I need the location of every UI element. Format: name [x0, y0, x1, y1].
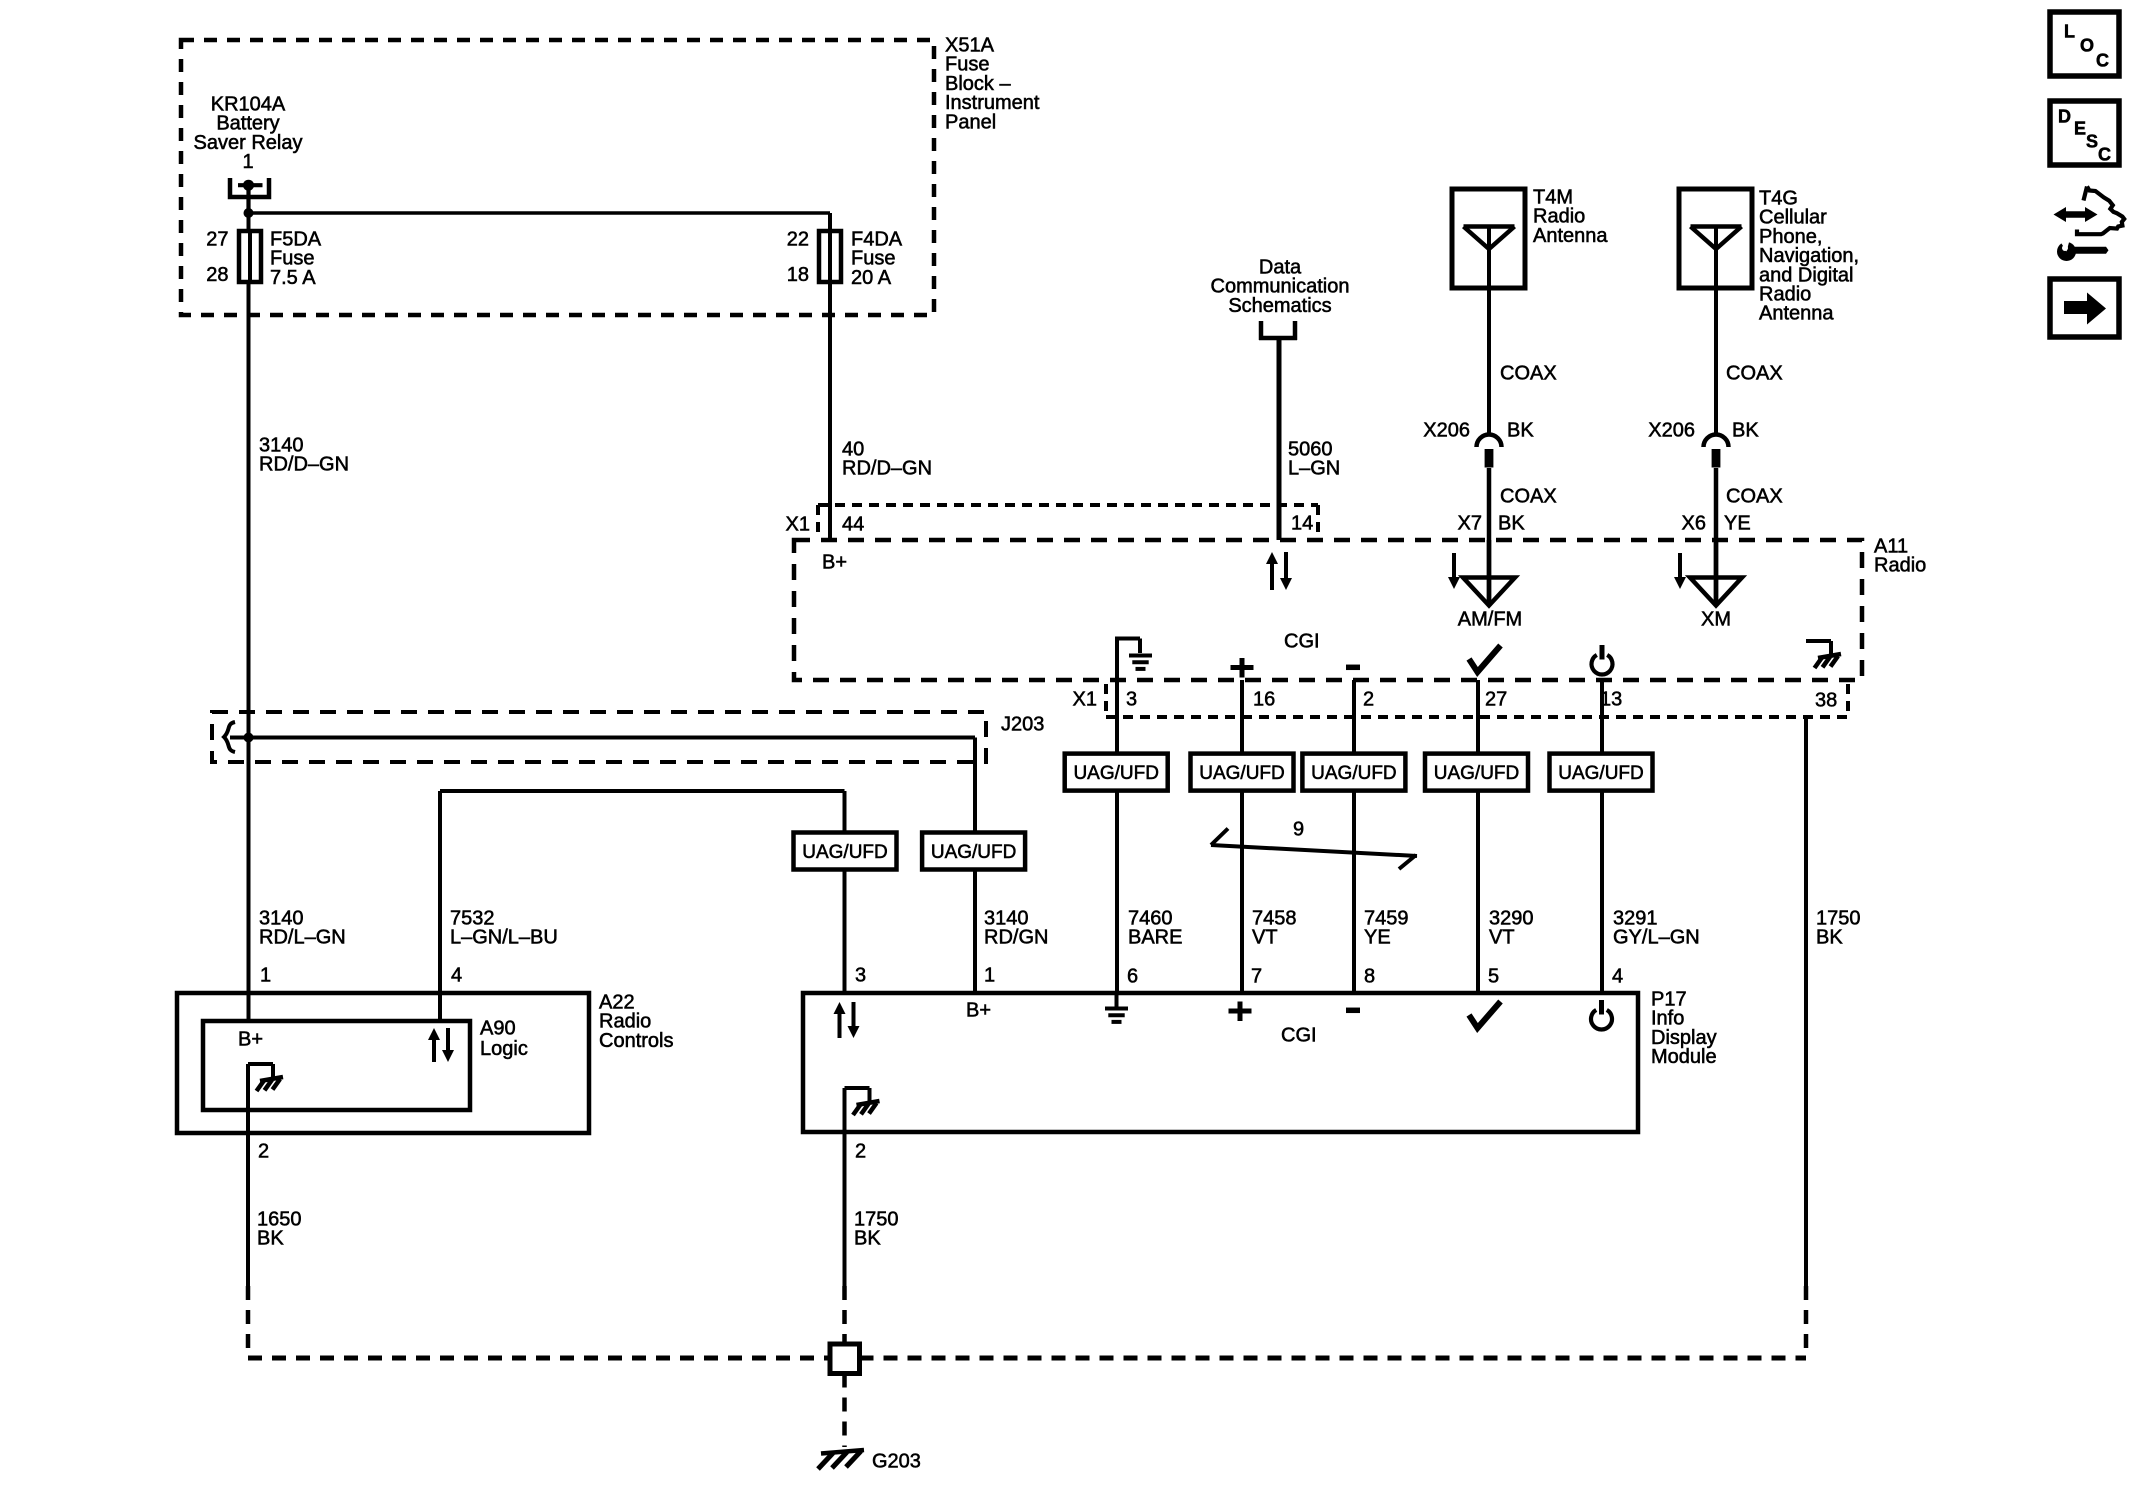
- svg-text:BK: BK: [1816, 927, 1843, 949]
- chassis ground symbol at radio pin 38: [1806, 641, 1841, 668]
- pin labels 3 16 2 27 13 38: [1126, 689, 1837, 712]
- svg-text:BK: BK: [854, 1228, 881, 1250]
- svg-text:B+: B+: [966, 1000, 991, 1022]
- connector X206 inline on T4G coax: [1704, 434, 1729, 467]
- svg-text:J203: J203: [1001, 714, 1044, 736]
- svg-text:16: 16: [1253, 689, 1275, 711]
- svg-text:44: 44: [842, 514, 864, 536]
- ground symbol at P17 pin 6: [1105, 995, 1128, 1022]
- wire radio pin 2 to splice package: [1352, 680, 1356, 754]
- svg-text:Controls: Controls: [599, 1030, 673, 1052]
- relay KR104A label with pin 1: [194, 94, 303, 174]
- fuse F4DA 20 A: [819, 231, 841, 282]
- label COAX T4G lower: [1726, 486, 1783, 508]
- module P17 info display box: [803, 993, 1638, 1132]
- wire coax from T4G antenna: [1714, 227, 1718, 435]
- label XM: [1701, 609, 1731, 631]
- minus symbol at P17 pin 8: [1346, 1008, 1360, 1014]
- svg-text:14: 14: [1291, 513, 1313, 535]
- wire 3290 VT to info display module: [1476, 791, 1480, 993]
- node B+ in A22: [238, 1029, 263, 1051]
- svg-text:3: 3: [1126, 689, 1137, 711]
- svg-text:RD/D–GN: RD/D–GN: [842, 458, 932, 480]
- wire radio pin 16 to splice package: [1240, 680, 1244, 754]
- label A11 Radio: [1874, 536, 1926, 577]
- label F4DA Fuse 20 A: [851, 229, 903, 289]
- label note 9: [1293, 819, 1304, 841]
- icon wrench: [2057, 240, 2109, 262]
- svg-text:BK: BK: [1732, 420, 1759, 442]
- wire 7532 L-GN/L-BU from radio controls pin 4 to UAG/UFD splice: [440, 791, 845, 1021]
- svg-text:S: S: [2086, 132, 2098, 152]
- svg-text:7: 7: [1251, 966, 1262, 988]
- svg-text:2: 2: [258, 1141, 269, 1163]
- svg-text:UAG/UFD: UAG/UFD: [1073, 763, 1159, 784]
- icon vehicle with double arrow: [2054, 187, 2125, 235]
- svg-text:E: E: [2074, 119, 2086, 139]
- wire radio pin 13 to splice package: [1600, 680, 1604, 754]
- svg-text:L: L: [2064, 22, 2075, 42]
- connector square at ground junction: [830, 1344, 860, 1374]
- svg-text:2: 2: [855, 1141, 866, 1163]
- bidirectional data arrows in P17: [834, 1002, 860, 1038]
- wire J203 to UAG/UFD splice: [973, 738, 977, 834]
- chassis ground symbol at P17 pin 2: [845, 1088, 880, 1286]
- label circuit 7459 YE: [1364, 908, 1409, 949]
- svg-text:X7: X7: [1458, 513, 1482, 535]
- label J203: [1001, 714, 1044, 736]
- svg-text:5: 5: [1488, 966, 1499, 988]
- svg-text:UAG/UFD: UAG/UFD: [1434, 763, 1520, 784]
- wire relay output to F4DA: [249, 211, 831, 215]
- svg-text:9: 9: [1293, 819, 1304, 841]
- wire 3291 GY/L-GN to info display module: [1600, 791, 1604, 993]
- svg-text:20 A: 20 A: [851, 267, 892, 289]
- icon DESC box: [2050, 101, 2119, 165]
- wire 3140 RD/L-GN from J203 to radio controls: [247, 738, 251, 1022]
- wire coax from X206 to radio AM/FM input: [1487, 468, 1492, 605]
- label T4G Cellular Phone Navigation and Digital Radio Antenna: [1759, 188, 1859, 325]
- minus symbol at radio pin 2: [1346, 665, 1360, 671]
- svg-text:B+: B+: [822, 552, 847, 574]
- svg-text:AM/FM: AM/FM: [1458, 609, 1522, 631]
- label circuit 3140 RD/GN: [984, 908, 1048, 949]
- label X1 top connector: [786, 514, 810, 536]
- svg-text:COAX: COAX: [1726, 363, 1783, 385]
- svg-text:7.5 A: 7.5 A: [270, 267, 316, 289]
- svg-text:18: 18: [787, 264, 809, 286]
- wire 7460 BARE to info display module: [1115, 791, 1119, 993]
- splice package UAG/UFD for pin 2 wire: [1302, 754, 1405, 791]
- labels X6 YE at radio connector: [1682, 513, 1751, 535]
- svg-text:BK: BK: [1498, 513, 1525, 535]
- svg-text:X1: X1: [786, 514, 810, 536]
- pin 4 label of A22: [451, 965, 462, 987]
- svg-text:D: D: [2058, 107, 2071, 127]
- check symbol at P17 pin 5: [1469, 1002, 1501, 1029]
- labels X206 BK at T4G coax connector: [1648, 420, 1759, 442]
- connector X206 inline on T4M coax: [1477, 434, 1502, 467]
- label circuit 1750 BK right: [1816, 908, 1861, 949]
- label circuit 3140 RD/L-GN: [259, 908, 346, 949]
- wire dashed ground bus: [248, 1356, 1806, 1361]
- module A22 radio controls box: [177, 993, 589, 1133]
- label G203: [872, 1451, 921, 1473]
- svg-text:O: O: [2080, 36, 2094, 56]
- relay KR104A battery saver relay symbol: [230, 178, 269, 213]
- wire dashed 1750 BK drop to ground connector: [842, 1286, 847, 1344]
- svg-text:YE: YE: [1724, 513, 1751, 535]
- svg-text:UAG/UFD: UAG/UFD: [802, 842, 888, 863]
- power symbol at radio pin 13: [1592, 645, 1613, 675]
- wire 7458 VT to info display module: [1240, 791, 1244, 993]
- wire 3140 RD/D-GN from fuse F5DA to splice J203: [247, 282, 251, 738]
- splice package UAG/UFD for pin 3 wire: [1065, 754, 1168, 791]
- splice package UAG/UFD for pin 13 wire: [1550, 754, 1653, 791]
- svg-text:XM: XM: [1701, 609, 1731, 631]
- radio A11 dashed outline: [794, 540, 1862, 680]
- connector X1 top of radio with pin 44 and pin 14: [818, 505, 1318, 538]
- svg-text:G203: G203: [872, 1451, 921, 1473]
- node junction at J203: [244, 733, 254, 743]
- svg-text:4: 4: [1612, 966, 1623, 988]
- pin 14 label: [1291, 513, 1313, 535]
- off-page connector bracket for data communication: [1259, 321, 1297, 340]
- svg-text:Schematics: Schematics: [1228, 295, 1331, 317]
- pin 1 label of A22: [260, 965, 271, 987]
- svg-text:VT: VT: [1252, 927, 1278, 949]
- labels X7 BK at radio connector: [1458, 513, 1526, 535]
- svg-text:L–GN: L–GN: [1288, 458, 1340, 480]
- svg-text:38: 38: [1815, 690, 1837, 712]
- svg-text:COAX: COAX: [1500, 486, 1557, 508]
- svg-text:X6: X6: [1682, 513, 1706, 535]
- fuse F5DA 7.5 A: [239, 231, 261, 282]
- wire 3140 RD/GN to info display pin 1: [973, 870, 977, 994]
- wire coax from X206 to radio XM input: [1714, 468, 1719, 605]
- svg-text:CGI: CGI: [1284, 631, 1320, 653]
- label circuit 7458 VT: [1252, 908, 1297, 949]
- svg-text:UAG/UFD: UAG/UFD: [1558, 763, 1644, 784]
- svg-text:X206: X206: [1423, 420, 1470, 442]
- label Data Communication Schematics: [1211, 257, 1350, 317]
- label AM/FM: [1458, 609, 1522, 631]
- svg-text:1: 1: [984, 965, 995, 987]
- svg-text:UAG/UFD: UAG/UFD: [931, 842, 1017, 863]
- wire 40 RD/D-GN from fuse F4DA to radio pin 44: [828, 282, 832, 540]
- wire 5060 L-GN to radio pin 14: [1277, 340, 1282, 540]
- label circuit 7532 L-GN/L-BU: [450, 908, 558, 949]
- svg-text:COAX: COAX: [1726, 486, 1783, 508]
- svg-text:RD/D–GN: RD/D–GN: [259, 454, 349, 476]
- check symbol at radio pin 27: [1469, 646, 1501, 673]
- wire coax from T4M antenna: [1487, 227, 1491, 435]
- wire 1750 BK from radio pin 38 to ground bus: [1804, 717, 1808, 1286]
- icon forward arrow box: [2050, 279, 2119, 337]
- svg-text:C: C: [2096, 51, 2109, 71]
- svg-text:Antenna: Antenna: [1759, 303, 1834, 325]
- pin 2 label of P17: [855, 1141, 866, 1163]
- label X1 bottom connector: [1073, 689, 1097, 711]
- node junction below relay: [244, 208, 254, 218]
- label circuit 5060 L-GN: [1288, 439, 1340, 480]
- svg-text:RD/GN: RD/GN: [984, 927, 1048, 949]
- svg-text:22: 22: [787, 229, 809, 251]
- bidirectional data arrows in A90: [428, 1028, 454, 1062]
- svg-text:6: 6: [1127, 966, 1138, 988]
- fuse block X51A dashed outline: [181, 40, 934, 315]
- svg-text:1: 1: [242, 151, 253, 173]
- label CGI inside radio: [1284, 631, 1320, 653]
- svg-text:Logic: Logic: [480, 1038, 528, 1060]
- svg-text:Module: Module: [1651, 1046, 1717, 1068]
- pin numbers 27 28 of fuse F5DA: [206, 229, 228, 287]
- wire junction to fuse F4DA: [828, 213, 832, 232]
- label COAX T4M lower: [1500, 486, 1557, 508]
- svg-text:Panel: Panel: [945, 111, 996, 133]
- label A22 Radio Controls: [599, 992, 673, 1052]
- wire dashed 1650 BK drop to ground bus: [246, 1286, 251, 1356]
- power symbol at P17 pin 4: [1591, 1000, 1612, 1029]
- splice package UAG/UFD right for circuit 3140 RD/GN: [922, 833, 1025, 870]
- chassis ground symbol in A90: [248, 1064, 283, 1286]
- AM/FM antenna input symbol: [1463, 540, 1515, 606]
- ground symbol at radio pin 3: [1117, 637, 1152, 681]
- label P17 Info Display Module: [1651, 989, 1717, 1069]
- svg-text:UAG/UFD: UAG/UFD: [1311, 763, 1397, 784]
- svg-text:27: 27: [206, 229, 228, 251]
- label circuit 3140 RD/D-GN: [259, 435, 349, 476]
- svg-text:8: 8: [1364, 966, 1375, 988]
- svg-text:X206: X206: [1648, 420, 1695, 442]
- pin 2 label of A22: [258, 1141, 269, 1163]
- wire radio pin 27 to splice package: [1476, 680, 1480, 754]
- wire 7459 YE to info display module: [1352, 791, 1356, 993]
- svg-text:2: 2: [1363, 689, 1374, 711]
- twisted pair marker note 9: [1211, 829, 1417, 870]
- splice package UAG/UFD left of info display pin 3: [794, 833, 897, 870]
- ground G203 symbol: [818, 1450, 864, 1469]
- svg-text:28: 28: [206, 264, 228, 286]
- label T4M Radio Antenna: [1533, 187, 1608, 247]
- svg-text:BK: BK: [1507, 420, 1534, 442]
- arrow into XM antenna input: [1674, 553, 1686, 589]
- svg-text:VT: VT: [1489, 927, 1515, 949]
- XM antenna input symbol: [1690, 540, 1742, 606]
- svg-text:L–GN/L–BU: L–GN/L–BU: [450, 927, 558, 949]
- node B+ inside radio: [822, 552, 847, 574]
- svg-text:COAX: COAX: [1500, 363, 1557, 385]
- labels X206 BK at T4M coax connector: [1423, 420, 1534, 442]
- bidirectional data arrows at radio pin 14: [1266, 552, 1292, 590]
- plus symbol at radio pin 16: [1231, 658, 1254, 678]
- splice J203 dashed outline: [212, 712, 986, 762]
- label circuit 3291 GY/L-GN: [1613, 908, 1700, 949]
- pin 44 label: [842, 514, 864, 536]
- logic block A90 box: [203, 1021, 470, 1110]
- wire junction to fuse F5DA: [247, 213, 251, 231]
- svg-text:Antenna: Antenna: [1533, 225, 1608, 247]
- splice package UAG/UFD for pin 16 wire: [1191, 754, 1294, 791]
- label circuit 40 RD/D-GN: [842, 439, 932, 480]
- svg-text:4: 4: [451, 965, 462, 987]
- wire radio pin 3 to splice package: [1115, 680, 1119, 754]
- svg-text:1: 1: [260, 965, 271, 987]
- antenna T4M radio antenna: [1452, 189, 1525, 288]
- svg-text:27: 27: [1485, 689, 1507, 711]
- label COAX T4G upper: [1726, 363, 1783, 385]
- connector X1 bottom of radio pins 3 16 2 27 13 38: [1106, 684, 1848, 717]
- svg-text:BARE: BARE: [1128, 927, 1182, 949]
- wire dashed right 1750 BK drop to ground bus: [1804, 1286, 1809, 1356]
- svg-text:RD/L–GN: RD/L–GN: [259, 927, 346, 949]
- label X51A Fuse Block - Instrument Panel: [945, 35, 1040, 134]
- antenna T4G cellular phone navigation digital radio antenna: [1679, 189, 1752, 288]
- label F5DA Fuse 7.5 A: [270, 229, 322, 289]
- pin numbers 22 18 of fuse F4DA: [787, 229, 809, 287]
- label A90 Logic: [480, 1018, 528, 1061]
- svg-text:3: 3: [855, 965, 866, 987]
- splice package UAG/UFD for pin 27 wire: [1425, 754, 1528, 791]
- svg-text:X1: X1: [1073, 689, 1097, 711]
- splice clip symbol in J203: [224, 722, 235, 752]
- svg-text:CGI: CGI: [1281, 1025, 1317, 1047]
- label CGI in P17: [1281, 1025, 1317, 1047]
- pin labels 3 1 6 7 8 5 4 of P17: [855, 965, 1623, 988]
- wire splice J203 bus: [230, 736, 975, 740]
- svg-text:A90: A90: [480, 1018, 516, 1040]
- label COAX T4M upper: [1500, 363, 1557, 385]
- node B+ in P17: [966, 1000, 991, 1022]
- svg-text:YE: YE: [1364, 927, 1391, 949]
- label circuit 3290 VT: [1489, 908, 1534, 949]
- icon LOC box: [2050, 12, 2119, 76]
- label circuit 1750 BK center: [854, 1209, 899, 1250]
- label circuit 7460 BARE: [1128, 908, 1182, 949]
- svg-text:Radio: Radio: [1874, 555, 1926, 577]
- svg-text:B+: B+: [238, 1029, 263, 1051]
- svg-text:C: C: [2098, 145, 2111, 165]
- svg-text:UAG/UFD: UAG/UFD: [1199, 763, 1285, 784]
- svg-text:GY/L–GN: GY/L–GN: [1613, 927, 1700, 949]
- wire dashed to ground G203: [842, 1374, 847, 1448]
- label circuit 1650 BK: [257, 1209, 302, 1250]
- svg-text:BK: BK: [257, 1228, 284, 1250]
- arrow into AM/FM antenna input: [1448, 553, 1460, 589]
- wire UAG/UFD to info display pin 3: [843, 870, 847, 994]
- plus symbol at P17 pin 7: [1229, 1002, 1252, 1022]
